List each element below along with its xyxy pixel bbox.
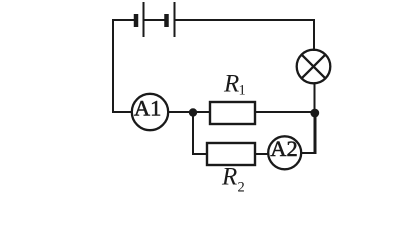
svg-text:2: 2 — [238, 180, 245, 196]
wire: left vertical from top corner down to A1 level — [112, 19, 114, 112]
resistor R2 — [207, 143, 255, 165]
svg-text:A1: A1 — [134, 96, 162, 121]
battery cell 2 negative plate (short thick) — [164, 14, 169, 27]
wire: from resistor R2 to ammeter A2 — [255, 153, 269, 155]
label R1 — [223, 71, 246, 99]
resistor R1 — [210, 102, 255, 124]
svg-text:R: R — [223, 71, 239, 98]
svg-text:R: R — [221, 164, 237, 191]
label R2 — [221, 164, 245, 196]
wire: top-left horizontal from left corner to battery — [113, 19, 134, 21]
lamp (circle with X) — [297, 50, 331, 84]
wire: vertical from node A down to R2 branch — [192, 112, 194, 154]
ammeter A2 — [268, 136, 301, 169]
svg-text:A2: A2 — [270, 136, 298, 161]
wire: from A1 to node A — [168, 111, 193, 113]
wire: horizontal from left vertical to ammeter A1 — [112, 111, 132, 113]
node B (junction dot between R1, lamp and A2 branch) — [310, 109, 319, 118]
battery cell 1 negative plate (short thick) — [134, 14, 139, 27]
wire: from A2 right up to node B — [301, 113, 316, 153]
wire: from node A to resistor R1 — [193, 111, 210, 113]
wire: between battery cells — [144, 19, 167, 21]
battery cell 2 positive plate (long thin) — [174, 2, 176, 37]
wire: from resistor R1 to node B — [255, 111, 315, 113]
wire: top horizontal from battery to top-right corner — [175, 19, 315, 21]
wire: right vertical from top corner down to lamp — [313, 19, 315, 51]
battery cell 1 positive plate (long thin) — [143, 2, 145, 37]
wire: horizontal from corner to resistor R2 — [192, 153, 207, 155]
ammeter A1 — [132, 94, 168, 130]
wire: right vertical from lamp down through node B to bottom branch — [314, 83, 316, 153]
node A (junction dot between A1, R1 and R2 branches) — [189, 108, 197, 116]
svg-text:1: 1 — [239, 83, 246, 99]
